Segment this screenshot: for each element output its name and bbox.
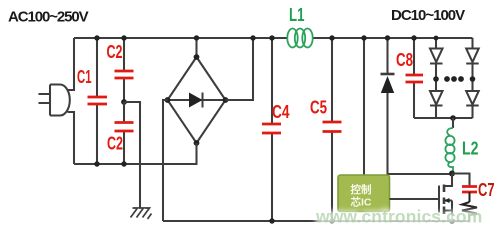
capacitor C2 upper bbox=[115, 38, 134, 102]
wire top rail (right of L1 to LED column) bbox=[313, 37, 473, 39]
svg-text:控制: 控制 bbox=[351, 183, 372, 196]
wire D1 anode to drain node bbox=[388, 173, 453, 175]
inductor L1 bbox=[287, 29, 312, 48]
wire LED bottom to L2 bbox=[452, 118, 454, 128]
MOSFET Q1 drain bbox=[445, 174, 453, 187]
MOSFET Q1 source bbox=[444, 201, 452, 222]
wire rail to bridge top vertex bbox=[195, 38, 197, 57]
capacitor C8 bbox=[406, 38, 424, 118]
node bridge bottom vertex bbox=[194, 140, 200, 146]
svg-text:C7: C7 bbox=[478, 180, 495, 200]
wire LED bottom rail bbox=[414, 117, 473, 119]
node LED right middle bbox=[470, 76, 476, 82]
capacitor C2 lower bbox=[115, 102, 134, 164]
svg-text:C4: C4 bbox=[272, 102, 290, 122]
node C5 bottom bbox=[329, 218, 334, 223]
node C5 top bbox=[329, 35, 334, 40]
wire top rail (left of L1) bbox=[74, 37, 287, 39]
ellipsis dots between LED strings bbox=[444, 76, 464, 82]
node bridge top tap bbox=[194, 35, 199, 40]
svg-text:AC100~250V: AC100~250V bbox=[8, 9, 89, 26]
watermark bbox=[315, 207, 482, 227]
node C2 junction bbox=[121, 99, 127, 105]
node D1 top bbox=[385, 35, 390, 40]
node bridge right vertex bbox=[223, 97, 229, 103]
node C8 top bbox=[411, 35, 416, 40]
node source to return bbox=[449, 218, 455, 224]
MOSFET Q1 body arrow bbox=[444, 198, 452, 203]
capacitor C4 bbox=[262, 38, 281, 221]
LED column right diode 1 bbox=[466, 38, 479, 79]
resistor R1 bbox=[462, 192, 477, 221]
node bridge right tap bbox=[250, 35, 255, 40]
LED column right diode 2 bbox=[466, 79, 479, 118]
MOSFET Q1 channel bars bbox=[443, 185, 446, 215]
wire C2 junction to ground bbox=[124, 102, 140, 208]
svg-text:L2: L2 bbox=[462, 139, 479, 159]
svg-text:C8: C8 bbox=[396, 50, 413, 70]
wire bridge bottom to input rail bbox=[197, 143, 198, 164]
node LED left top bbox=[434, 36, 439, 41]
control IC U1 bbox=[338, 175, 390, 212]
node C1 bottom bbox=[94, 161, 99, 166]
wire input bottom rail bbox=[74, 163, 198, 165]
bridge diode bbox=[189, 93, 203, 108]
svg-text:C2: C2 bbox=[107, 134, 123, 154]
bridge rectifier BR1 bbox=[168, 57, 226, 143]
diode D1 bbox=[381, 38, 395, 175]
node C1 top bbox=[94, 35, 99, 40]
svg-text:L1: L1 bbox=[289, 5, 305, 25]
LED column left diode 2 bbox=[430, 79, 443, 118]
capacitor C1 bbox=[88, 38, 108, 164]
svg-text:C5: C5 bbox=[310, 98, 327, 118]
wire plug top terminal to top rail bbox=[68, 38, 75, 90]
node drain junction bbox=[449, 171, 455, 177]
wire bottom return line bbox=[163, 220, 470, 222]
LED column left diode 1 bbox=[430, 38, 443, 79]
node C4 bottom bbox=[269, 218, 274, 223]
AC plug P1 bbox=[39, 85, 70, 116]
node bridge top vertex bbox=[194, 54, 200, 60]
node bridge left vertex bbox=[165, 97, 171, 103]
node LED bottom tap bbox=[450, 115, 456, 121]
wire rail to IC supply pin bbox=[363, 38, 365, 175]
node IC supply tap bbox=[361, 35, 366, 40]
svg-text:www.cntronics.com: www.cntronics.com bbox=[315, 207, 482, 227]
svg-text:C2: C2 bbox=[107, 42, 123, 62]
MOSFET Q1 gate bar bbox=[438, 186, 440, 213]
capacitor C5 bbox=[323, 38, 342, 221]
ground bbox=[131, 208, 152, 219]
capacitor C7 bbox=[462, 187, 477, 193]
wire plug bottom terminal to bottom rail bbox=[68, 112, 75, 164]
wire drain node to snubber bbox=[452, 174, 470, 187]
wire bridge right vertex to top rail bbox=[226, 38, 254, 100]
svg-text:C1: C1 bbox=[77, 67, 92, 87]
node C2 top bbox=[121, 35, 126, 40]
svg-text:DC10~100V: DC10~100V bbox=[391, 7, 465, 24]
node C4 top bbox=[269, 35, 274, 40]
wire bridge left vertex to return line bbox=[163, 100, 168, 221]
inductor L2 bbox=[445, 128, 454, 174]
node LED left middle bbox=[433, 76, 439, 82]
wire IC gate output bbox=[390, 198, 440, 200]
node C2 bottom bbox=[121, 161, 126, 166]
